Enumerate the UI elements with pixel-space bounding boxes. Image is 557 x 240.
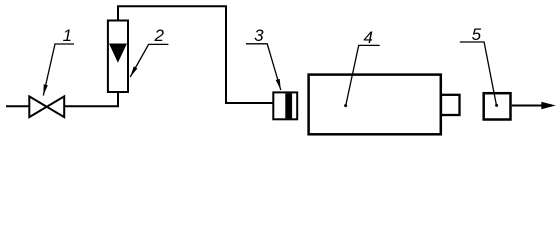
svg-text:4: 4 bbox=[363, 28, 372, 47]
svg-text:5: 5 bbox=[472, 25, 482, 44]
svg-text:2: 2 bbox=[153, 26, 164, 45]
svg-text:3: 3 bbox=[254, 26, 264, 45]
svg-text:1: 1 bbox=[63, 26, 72, 45]
